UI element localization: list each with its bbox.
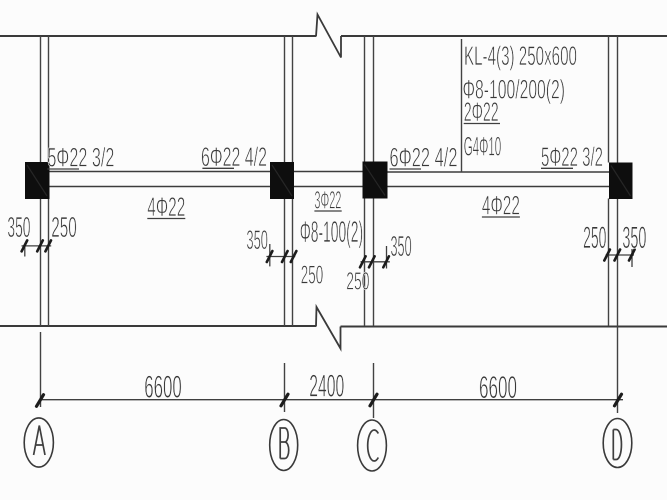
column D (filled) xyxy=(609,163,633,200)
cutoff dim extension stub at D xyxy=(631,249,633,267)
column A (filled) xyxy=(25,162,50,199)
tick at B gridline1 xyxy=(282,251,288,262)
leader line for beam note block xyxy=(461,39,463,172)
bottom boundary line (left segment) xyxy=(0,325,316,327)
gridline pair axis D upper xyxy=(609,36,618,163)
beam bottom line span A-B xyxy=(50,186,271,188)
cutoff dimension line at D xyxy=(606,254,634,256)
svg-text:4Φ22: 4Φ22 xyxy=(147,192,185,222)
axis C extension line xyxy=(373,363,375,418)
underline 2phi22 xyxy=(464,123,500,125)
cutoff dimension line at A xyxy=(22,245,52,247)
svg-text:350: 350 xyxy=(246,225,268,255)
svg-text:250: 250 xyxy=(51,212,76,244)
underline 5phi22 at A xyxy=(47,168,79,170)
tick at C gridline2 xyxy=(369,256,375,267)
gridline pair axis A upper xyxy=(41,36,49,162)
underline 4phi22 span A-B xyxy=(147,218,185,220)
svg-text:3Φ22: 3Φ22 xyxy=(314,187,341,215)
beam top line span A-B xyxy=(50,171,271,173)
gridline pair axis C upper xyxy=(365,36,374,162)
underline 4phi22 span C-D xyxy=(482,216,520,218)
svg-text:G4Φ10: G4Φ10 xyxy=(464,132,502,162)
gridline pair axis D lower xyxy=(609,199,618,327)
svg-text:250: 250 xyxy=(583,220,606,255)
tick at A gridline1 xyxy=(37,240,43,251)
beam bottom line span C-D xyxy=(388,186,610,188)
tick at C gridline1 xyxy=(360,256,366,267)
tick at C cutoff right xyxy=(383,256,389,267)
top boundary line (right segment) xyxy=(341,35,667,37)
svg-text:350: 350 xyxy=(7,212,30,244)
axis D extension line xyxy=(617,326,619,413)
dim tick axis B xyxy=(281,394,288,406)
axis bubble D xyxy=(603,419,632,468)
svg-text:6Φ22 4/2: 6Φ22 4/2 xyxy=(201,142,267,172)
svg-text:4Φ22: 4Φ22 xyxy=(482,191,520,221)
tick at D cutoff right xyxy=(629,250,635,261)
gridline pair axis B lower xyxy=(285,199,293,327)
dim tick axis A xyxy=(37,395,44,407)
gridline pair axis A lower xyxy=(41,199,49,327)
svg-text:250: 250 xyxy=(346,267,369,295)
cutoff dimension line at C xyxy=(361,261,390,263)
svg-text:5Φ22 3/2: 5Φ22 3/2 xyxy=(541,142,603,172)
svg-text:350: 350 xyxy=(622,220,646,255)
underline 6phi22 at C xyxy=(390,168,422,170)
dim tick axis D xyxy=(615,394,622,406)
svg-text:5Φ22 3/2: 5Φ22 3/2 xyxy=(47,142,114,172)
gridline pair axis B upper xyxy=(285,36,293,162)
bottom boundary line (right segment) xyxy=(341,326,667,328)
svg-text:KL-4(3) 250x600: KL-4(3) 250x600 xyxy=(464,41,577,71)
underline 5phi22 at D xyxy=(541,167,573,169)
axis bubble C xyxy=(358,420,387,471)
cutoff dim extension stub at C xyxy=(386,246,388,269)
axis bubble A xyxy=(24,418,53,467)
svg-text:350: 350 xyxy=(391,231,412,263)
cutoff dim extension stub at B xyxy=(269,244,271,266)
axis A extension line xyxy=(40,332,42,407)
beam bottom line span B-C xyxy=(294,186,363,188)
underline 3phi22 span B-C xyxy=(314,210,341,212)
top boundary line (left segment) xyxy=(0,35,316,37)
svg-text:Φ8-100(2): Φ8-100(2) xyxy=(300,216,363,249)
cutoff dimension line at B xyxy=(266,256,295,258)
svg-text:2400: 2400 xyxy=(309,368,344,404)
column B (filled) xyxy=(270,162,294,199)
beam top line span B-C xyxy=(294,171,363,173)
axis B extension line xyxy=(284,363,286,412)
svg-text:2Φ22: 2Φ22 xyxy=(464,97,499,127)
main dimension line xyxy=(40,399,623,401)
beam top line span C-D xyxy=(388,171,610,173)
gridline pair axis C lower xyxy=(365,198,374,326)
tick at D gridline1 xyxy=(604,250,610,261)
axis bubble B xyxy=(270,420,298,471)
top break symbol xyxy=(316,15,341,58)
svg-text:250: 250 xyxy=(301,260,323,290)
svg-text:6600: 6600 xyxy=(479,369,517,405)
cutoff dim extension stub at A xyxy=(24,246,26,257)
bottom break symbol xyxy=(316,307,341,349)
tick at B cutoff left xyxy=(267,251,273,262)
tick at D gridline2 xyxy=(615,250,621,261)
tick at B gridline2 xyxy=(291,251,297,262)
dim tick axis C xyxy=(370,394,377,406)
column C (filled) xyxy=(363,162,388,199)
tick at A cutoff left xyxy=(22,240,28,251)
underline 6phi22 at B xyxy=(202,167,234,169)
tick at A gridline2 xyxy=(45,240,51,251)
svg-text:6Φ22 4/2: 6Φ22 4/2 xyxy=(390,143,458,173)
svg-text:6600: 6600 xyxy=(144,369,182,405)
